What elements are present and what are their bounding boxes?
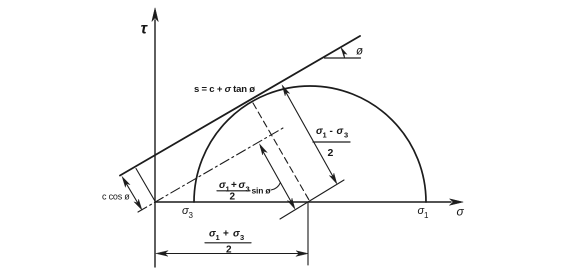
svg-text:3: 3 — [240, 233, 244, 242]
svg-text:sin ø: sin ø — [252, 186, 272, 196]
bottom dimension line (sigma1+sigma3)/2 — [156, 251, 308, 257]
svg-text:σ: σ — [457, 205, 465, 219]
svg-text:+: + — [223, 229, 229, 240]
svg-text:σ: σ — [337, 126, 344, 137]
dimension line (sigma1+sigma3)/2 sin phi — [260, 144, 296, 209]
dash-dot line through origin parallel to envelope — [138, 128, 283, 212]
label (sigma1-sigma3)/2 — [313, 126, 350, 159]
svg-text:3: 3 — [189, 211, 194, 220]
svg-text:σ: σ — [233, 229, 240, 240]
sigma1 point label — [418, 205, 430, 220]
svg-text:3: 3 — [246, 185, 250, 194]
label (sigma1+sigma3)/2 sin phi — [217, 180, 281, 203]
failure envelope s = c + sigma tan phi — [120, 36, 360, 176]
svg-text:+: + — [231, 180, 237, 191]
perpendicular from origin to envelope (c cos phi construction line) — [136, 169, 156, 203]
svg-text:1: 1 — [424, 211, 429, 220]
label bottom (sigma1+sigma3)/2 — [205, 229, 251, 256]
dimension line c cos phi — [122, 177, 142, 211]
svg-text:σ: σ — [239, 180, 246, 191]
svg-text:s = c + σ tan ø: s = c + σ tan ø — [194, 84, 255, 95]
sigma axis — [155, 199, 463, 205]
Mohr circle (upper semicircle) — [194, 86, 426, 202]
svg-text:ø: ø — [356, 46, 363, 58]
svg-text:1: 1 — [216, 233, 220, 242]
svg-text:1: 1 — [323, 131, 327, 140]
phi angle reference horizontal line — [325, 57, 361, 59]
dashed radius line from tangent point T to centre C — [253, 103, 309, 200]
svg-text:-: - — [330, 126, 333, 137]
svg-text:2: 2 — [226, 245, 232, 256]
tau axis — [152, 8, 158, 267]
extension line below centre C — [307, 203, 309, 265]
sigma3 point label — [182, 205, 194, 220]
svg-text:c cos ø: c cos ø — [102, 192, 130, 202]
svg-text:τ: τ — [141, 21, 149, 38]
svg-text:2: 2 — [328, 147, 334, 159]
thin line through centre C parallel to envelope — [280, 180, 344, 219]
dimension line (sigma1-sigma3)/2 (radius) — [282, 85, 337, 184]
svg-text:3: 3 — [344, 131, 348, 140]
svg-text:2: 2 — [230, 192, 236, 203]
phi angle arc with arrow — [341, 48, 347, 59]
